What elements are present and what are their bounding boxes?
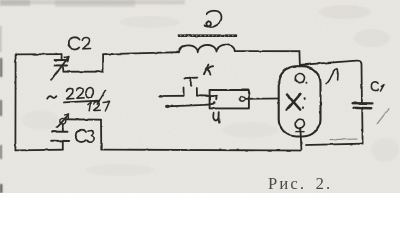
top edge gray streak [0,0,185,193]
wire starter to lamp [245,98,279,100]
wire bottom right (lamp to C3 step) [101,149,300,152]
wire top-left horizontal [16,53,62,55]
choke core bar [178,34,237,37]
lamp X mark [287,94,301,110]
wire from C3 arrow-circle [66,118,101,120]
arrow of C3 [57,114,69,128]
wire bottom left [15,149,62,152]
label I (starter), cursive [213,113,218,120]
starter contact circle [240,96,245,101]
inductor D (choke) coil [179,45,235,53]
wire step-down vertical (C3 right) [100,120,102,150]
wire left vertical [14,54,16,150]
wire C1 branch bottom [361,109,363,144]
wire lower step (C2 to step-up) [63,71,103,73]
stray slash mark [377,109,389,124]
wire top right [235,50,300,52]
lamp L outline [279,66,321,136]
caption Fig. 2 [268,174,332,194]
wire step-up vertical [102,54,104,71]
arrow of C2 [52,57,69,80]
label C3 [76,130,86,142]
lamp bottom stub and tick [300,129,301,150]
wire top middle [103,52,179,54]
switch K right post [196,88,198,96]
starter branch: top lead with blob [158,95,162,98]
capacitor C3 (variable, in series with bottom wire) [60,118,66,124]
switch K left post [183,88,185,96]
label ~220/127 (mains) [47,96,56,98]
fraction bar and slash [64,101,100,103]
label D (choke), cursive [205,11,222,27]
left edge smudge marks [0,26,1,52]
label C2 [69,37,80,49]
label K (switch) [204,65,209,75]
wire foot into starter box + upper electrode [197,96,216,100]
label L (lamp), cursive [326,69,338,84]
lamp top filament circle [295,74,304,83]
lamp bottom filament circle [295,119,304,128]
faint double-stroke echo [330,138,357,141]
wire corner down to lamp [298,51,301,66]
capacitor C2 (variable, in series with top wire) [61,54,63,60]
wire C1 branch top [301,61,362,103]
capacitor C1 plates [353,102,373,105]
paper blotches [22,5,399,176]
starter lower lead with blob + electrode [165,105,170,108]
switch K button [184,78,197,86]
label C1 [371,82,378,91]
starter box U [210,90,249,108]
